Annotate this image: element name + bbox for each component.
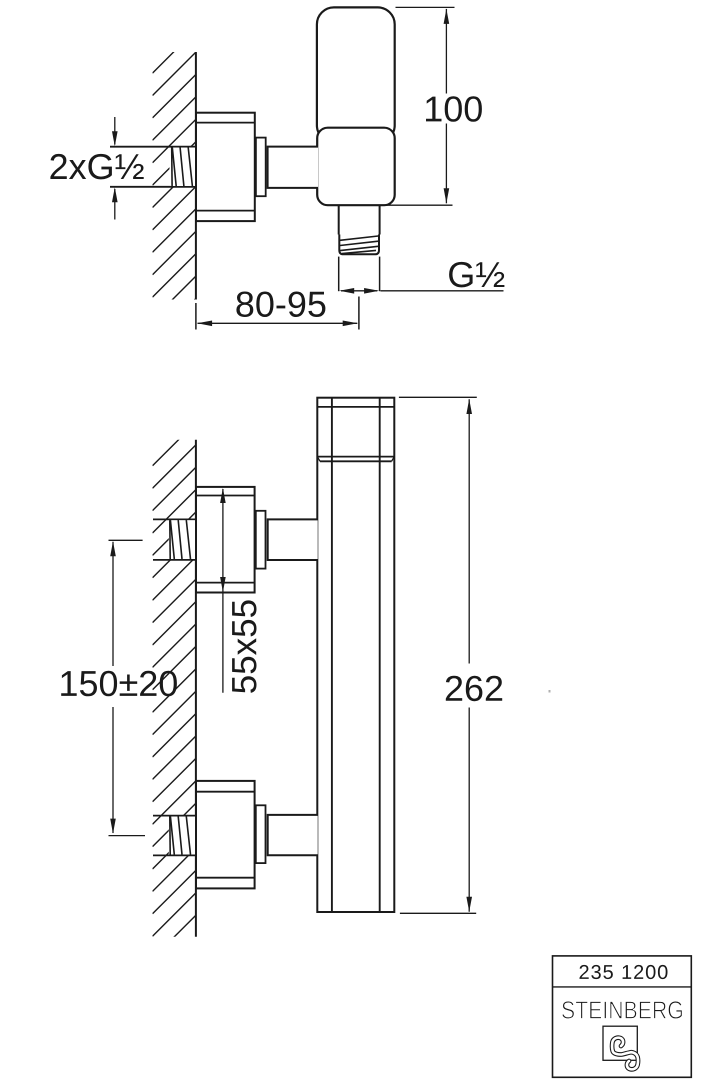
dimension 80-95	[196, 292, 359, 330]
dimension 55x55	[220, 488, 256, 693]
outlet thread (side view)	[339, 235, 379, 255]
outlet extension lines (side view)	[339, 257, 380, 292]
dimension 2xG1/2	[50, 117, 143, 220]
inlet thread (top view)	[171, 147, 196, 186]
outlet pipe (side view)	[339, 205, 380, 234]
lower inlet thread edge lines (front view)	[153, 816, 195, 856]
upper inlet thread (front view)	[169, 520, 195, 559]
handle (side view)	[317, 7, 395, 142]
inlet thread edge lines (top view)	[110, 147, 195, 187]
logo square	[603, 1026, 637, 1060]
valve body (side view)	[317, 128, 395, 206]
logo swirl	[612, 1038, 638, 1070]
label G1/2 with leader	[381, 262, 505, 291]
lower collar (front view)	[256, 805, 266, 863]
STEINBERG wordmark	[562, 1001, 682, 1019]
faint speck	[549, 690, 551, 693]
connecting pipe (side view)	[268, 147, 319, 188]
outlet diameter arrows	[339, 288, 379, 294]
dimension 262	[399, 397, 502, 913]
wall hatch (top view)	[153, 30, 197, 365]
dimension 150±20	[61, 540, 177, 835]
wall edge line (front view)	[195, 440, 197, 937]
dimension 100	[381, 7, 482, 205]
upper inlet thread edge lines (front view)	[153, 519, 195, 560]
lower connecting pipe (front view)	[268, 815, 318, 855]
escutcheon (side view)	[196, 113, 255, 221]
mixer column body (front view)	[317, 398, 394, 912]
upper connecting pipe (front view)	[268, 519, 318, 560]
upper escutcheon (front view)	[196, 487, 255, 593]
collar (side view)	[256, 138, 266, 197]
lower inlet thread (front view)	[169, 816, 195, 854]
logo box frame	[553, 956, 692, 1077]
wall edge line (top view)	[195, 52, 197, 300]
article number 235 1200	[580, 965, 668, 979]
upper collar (front view)	[256, 511, 266, 569]
wall hatch (front view)	[153, 422, 197, 981]
lower escutcheon (front view)	[196, 781, 255, 889]
